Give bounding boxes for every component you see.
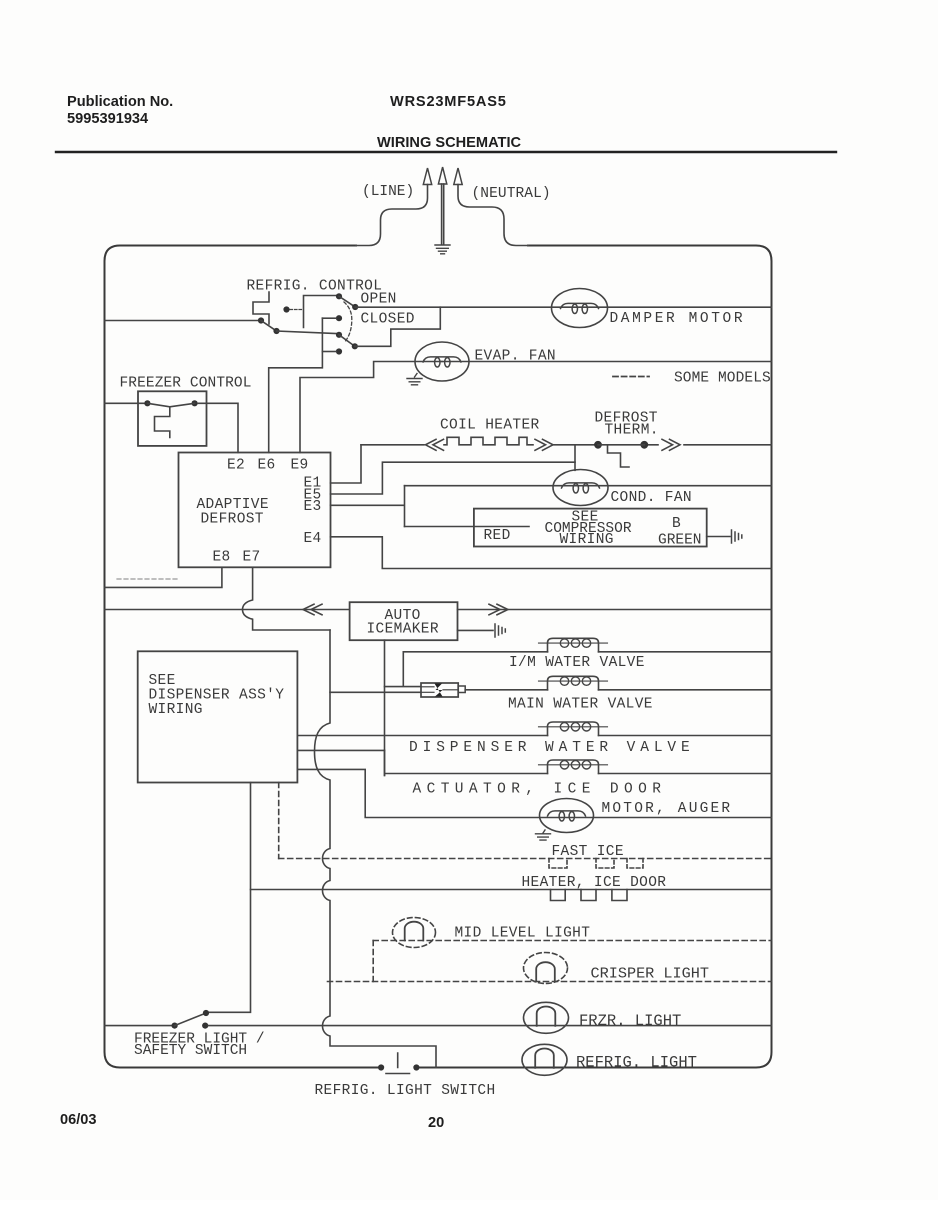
node freezer switch common <box>172 1023 178 1029</box>
svg-text:WIRING SCHEMATIC: WIRING SCHEMATIC <box>377 135 521 151</box>
coil actuator ice door <box>539 760 608 774</box>
svg-text:WIRING: WIRING <box>560 532 614 548</box>
node refrig switch right <box>413 1064 419 1070</box>
wire auger feed from dispenser box <box>297 769 771 817</box>
svg-text:CRISPER LIGHT: CRISPER LIGHT <box>591 965 709 983</box>
wire dashed pin from dispenser box <box>278 783 280 859</box>
wire icemaker ground stub <box>458 629 494 631</box>
svg-text:FREEZER CONTROL: FREEZER CONTROL <box>120 376 252 392</box>
node sensor dot <box>283 306 289 312</box>
svg-text:REFRIG. LIGHT SWITCH: REFRIG. LIGHT SWITCH <box>315 1083 496 1099</box>
legend dashed sample <box>613 376 649 378</box>
motor DAMPER <box>552 289 608 328</box>
ground symbol (power entry) <box>435 245 450 254</box>
wire upper closed contact to riser <box>322 317 336 319</box>
box freezer control <box>138 391 207 446</box>
wire E3 to cond fan / compressor <box>331 486 405 527</box>
chevrons left (coil heater) <box>426 439 444 450</box>
wire open/damper line left <box>355 306 771 308</box>
wire riser to open pivot <box>304 296 337 328</box>
wire I/M water valve line <box>403 651 771 653</box>
box adaptive defrost <box>179 453 331 568</box>
svg-text:WIRING: WIRING <box>149 702 203 718</box>
chevrons right (coil heater) <box>535 439 553 450</box>
resistor coil heater <box>444 437 533 445</box>
resistor fast ice (dashed) <box>549 859 643 869</box>
faint dashed stub near border <box>117 578 179 580</box>
svg-text:COIL HEATER: COIL HEATER <box>440 418 540 434</box>
wire E7 leg with hop over icemaker line <box>243 567 331 630</box>
svg-text:DISPENSER WATER VALVE: DISPENSER WATER VALVE <box>409 740 695 756</box>
wire E1 to coil heater <box>331 445 362 483</box>
coil I/M water valve <box>539 638 608 652</box>
motor AUGER <box>540 799 594 833</box>
svg-text:HEATER, ICE DOOR: HEATER, ICE DOOR <box>522 875 667 891</box>
svg-text:E9: E9 <box>291 458 309 474</box>
wire pole2 feed <box>277 331 337 334</box>
wire icemaker output to border <box>458 609 772 611</box>
switch blade closed <box>339 335 355 347</box>
switch blade freezer light <box>175 1013 206 1026</box>
svg-text:REFRIG. LIGHT: REFRIG. LIGHT <box>576 1054 697 1072</box>
svg-text:B: B <box>672 516 681 532</box>
wire main water valve line <box>465 689 771 691</box>
wire neutral-arrow to border <box>458 185 528 246</box>
ground (evap fan) <box>407 374 422 385</box>
svg-text:THERM.: THERM. <box>605 423 659 439</box>
wire frzr light line <box>208 1025 771 1027</box>
wire main valve line from dispenser column <box>330 691 421 693</box>
wire icemaker bottom pin riser <box>384 640 386 775</box>
wire RED compressor lead <box>405 526 530 528</box>
wire between therm contacts <box>598 444 644 446</box>
chevrons right of therm <box>662 439 680 450</box>
chassis ground (green) <box>732 530 742 543</box>
svg-text:WRS23MF5AS5: WRS23MF5AS5 <box>390 94 507 110</box>
node freezer switch lower right <box>202 1023 208 1029</box>
wire freezer control to E2 <box>198 403 238 452</box>
svg-text:I/M WATER VALVE: I/M WATER VALVE <box>509 655 645 671</box>
node lower aux contact <box>336 348 342 354</box>
node defrost therm left <box>594 441 602 449</box>
header rule <box>56 151 836 153</box>
svg-text:5995391934: 5995391934 <box>67 111 149 127</box>
wire aux riser down-left to E6 <box>269 318 323 452</box>
wire dispenser box to riser (connector feed 2) <box>297 749 384 751</box>
wire line-arrow to border <box>356 185 428 246</box>
lamp FRZR LIGHT <box>524 1002 569 1033</box>
node closed contact <box>352 343 358 349</box>
line arrow (power plug) <box>423 168 431 185</box>
wire freezer light line from border <box>105 1025 172 1027</box>
wire evap fan to right border <box>442 361 772 363</box>
svg-text:20: 20 <box>428 1115 444 1131</box>
wire cond fan drop <box>574 445 576 471</box>
svg-text:RED: RED <box>484 528 511 544</box>
svg-text:CLOSED: CLOSED <box>361 312 415 328</box>
svg-text:(NEUTRAL): (NEUTRAL) <box>472 186 551 202</box>
wire actuator line <box>385 750 772 775</box>
chevrons right (icemaker) <box>489 604 508 615</box>
svg-text:SOME MODELS: SOME MODELS <box>674 371 771 387</box>
coil main water valve <box>539 676 608 690</box>
box see dispenser ass'y wiring <box>138 651 298 782</box>
wire E4 route to right border <box>331 537 772 569</box>
wire dispenser valve line <box>297 735 771 737</box>
node open pivot <box>336 293 342 299</box>
switch blade freezer control <box>147 403 194 407</box>
wire mid level dashed line <box>373 940 771 942</box>
node freezer control left <box>144 400 150 406</box>
svg-text:E2: E2 <box>227 458 245 474</box>
svg-text:FAST ICE: FAST ICE <box>552 844 624 860</box>
svg-text:E3: E3 <box>304 499 322 515</box>
svg-text:COND. FAN: COND. FAN <box>611 490 692 506</box>
wire solid pin from dispenser box to freezer switch <box>209 783 251 1013</box>
node common (refrig control) <box>258 317 264 323</box>
svg-text:ACTUATOR, ICE DOOR: ACTUATOR, ICE DOOR <box>413 782 667 798</box>
chassis ground (icemaker) <box>495 624 505 637</box>
wire green lead <box>707 536 730 538</box>
node blade1 end <box>273 328 279 334</box>
svg-text:SAFETY SWITCH: SAFETY SWITCH <box>134 1043 247 1059</box>
thermostat zigzag <box>155 407 170 438</box>
motor COND FAN <box>553 470 608 506</box>
wire icemaker line from border <box>105 609 350 611</box>
node freezer switch upper <box>203 1010 209 1016</box>
box auto icemaker <box>350 602 458 640</box>
mechanical link dashed arc <box>344 302 352 341</box>
wire E7 trunk with hops <box>315 630 437 1068</box>
wire border to freezer control <box>105 402 145 404</box>
svg-text:EVAP. FAN: EVAP. FAN <box>475 349 556 365</box>
resistor heater ice door <box>551 890 628 901</box>
wire lower aux to riser <box>322 351 336 353</box>
neutral arrow (power plug) <box>454 168 462 185</box>
header publication number <box>60 94 521 1131</box>
svg-text:DAMPER MOTOR: DAMPER MOTOR <box>610 311 746 327</box>
svg-text:MID LEVEL LIGHT: MID LEVEL LIGHT <box>455 926 591 942</box>
ground arrow (power plug center) <box>438 167 446 184</box>
wire center stem <box>441 184 443 245</box>
svg-text:FRZR. LIGHT: FRZR. LIGHT <box>579 1012 681 1030</box>
wire crisper dashed line <box>328 981 772 983</box>
node upper closed contact <box>336 315 342 321</box>
wire coil heater line <box>361 444 772 446</box>
svg-text:E7: E7 <box>243 550 261 566</box>
wire common from left border <box>105 320 259 322</box>
node refrig switch left <box>378 1064 384 1070</box>
wire closed route to damper line <box>355 307 441 346</box>
wire dashed riser mid-to-crisper <box>372 941 374 982</box>
defrost therm bimetal step <box>608 445 630 467</box>
svg-text:MOTOR, AUGER: MOTOR, AUGER <box>602 801 733 817</box>
lamp CRISPER LIGHT (dashed) <box>524 953 568 984</box>
connector (main valve) <box>421 683 458 697</box>
node freezer control right <box>192 400 198 406</box>
node defrost therm right <box>640 441 648 449</box>
wire connector feed <box>385 652 422 687</box>
svg-text:ICEMAKER: ICEMAKER <box>367 622 439 638</box>
wire E8 to left border <box>105 567 222 587</box>
coil dispenser water valve <box>539 722 608 736</box>
svg-text:E8: E8 <box>213 550 231 566</box>
switch blade pole1 <box>261 321 277 332</box>
wire fast ice dashed line <box>279 858 772 860</box>
lamp REFRIG LIGHT <box>522 1044 567 1075</box>
lamp MID LEVEL LIGHT (dashed) <box>393 918 436 948</box>
wire cond fan line <box>405 485 772 487</box>
schematic enclosure border <box>105 246 772 1068</box>
wire E5 riser <box>331 462 576 494</box>
ground (auger) <box>536 830 551 840</box>
switch blade open <box>339 296 355 307</box>
box see compressor wiring <box>474 509 707 547</box>
svg-text:(LINE): (LINE) <box>362 184 414 200</box>
motor EVAP FAN <box>415 342 469 381</box>
svg-text:OPEN: OPEN <box>361 292 397 308</box>
wire heater ice door line <box>251 889 772 891</box>
svg-text:DEFROST: DEFROST <box>201 512 264 528</box>
refrig switch plunger <box>386 1053 410 1074</box>
node open contact <box>352 304 358 310</box>
wire evap fan left feed <box>300 362 442 453</box>
svg-text:Publication No.: Publication No. <box>67 94 173 110</box>
svg-text:GREEN: GREEN <box>658 533 702 549</box>
svg-text:06/03: 06/03 <box>60 1112 97 1128</box>
wire sensor dash <box>290 309 304 311</box>
node closed pivot <box>336 332 342 338</box>
svg-text:E6: E6 <box>258 458 276 474</box>
wire step stub (refrig control) <box>253 292 269 324</box>
chevrons left (icemaker) <box>303 604 322 615</box>
svg-text:E4: E4 <box>304 531 322 547</box>
svg-text:MAIN WATER VALVE: MAIN WATER VALVE <box>508 697 653 713</box>
